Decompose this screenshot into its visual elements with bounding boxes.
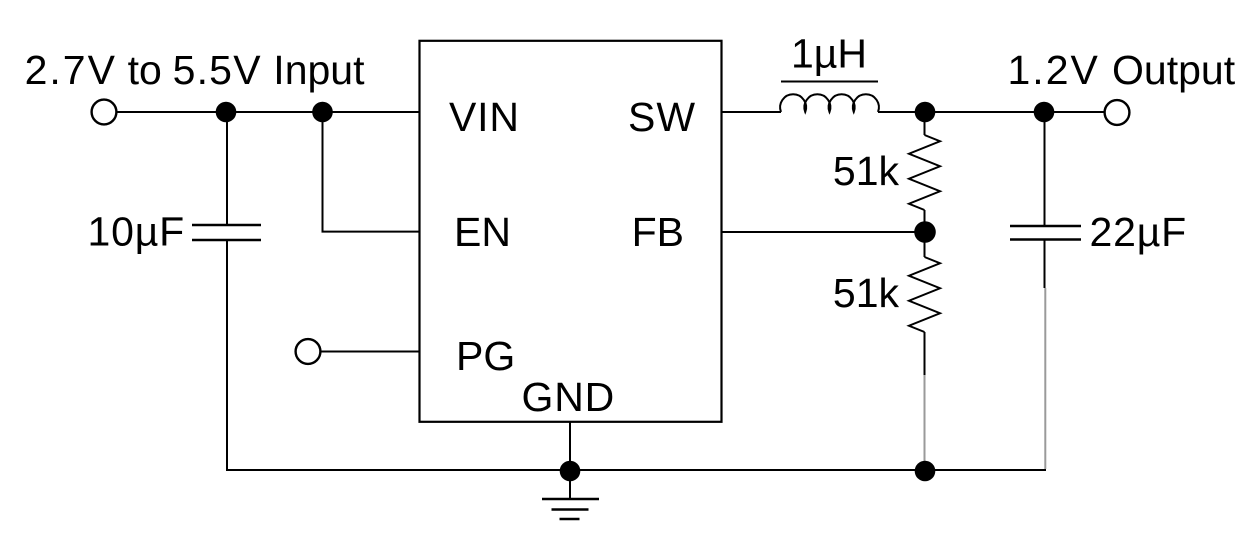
svg-text:FB: FB [632, 209, 684, 255]
svg-text:5.5V: 5.5V [173, 47, 262, 93]
wire PG [321, 351, 420, 353]
wire input to VIN [117, 111, 420, 113]
svg-text:2.7V: 2.7V [25, 47, 117, 93]
resistor R1 [909, 135, 940, 210]
inductor L1 [780, 94, 879, 112]
PG terminal [296, 339, 321, 364]
wire ground rail [227, 469, 1046, 471]
node output junction [1034, 102, 1055, 123]
label underline [781, 81, 878, 83]
node SW-R1 junction [915, 102, 936, 123]
op-amp U1 box [420, 41, 722, 422]
wire C1 top [226, 112, 228, 225]
wire C1 bottom to rail [227, 240, 420, 470]
capacitor C2 [1010, 226, 1081, 240]
node input junction 1 [216, 102, 237, 123]
svg-text:10µF: 10µF [88, 209, 185, 255]
ground [542, 499, 599, 519]
wire R2 bottom grey [924, 375, 926, 470]
wire C2 top [1044, 112, 1046, 226]
wire C2 bottom grey [1044, 288, 1046, 469]
svg-text:PG: PG [456, 333, 515, 379]
output terminal [1105, 100, 1130, 125]
wire FB [722, 231, 926, 233]
wire R1 bottom [924, 210, 926, 232]
svg-text:51k: 51k [833, 148, 900, 194]
svg-text:GND: GND [522, 374, 616, 420]
wire ground stem [569, 471, 571, 499]
svg-text:to: to [128, 47, 162, 93]
capacitor C1 [192, 225, 261, 240]
node rail-R2 junction [915, 461, 936, 482]
svg-text:22µF: 22µF [1090, 209, 1187, 255]
svg-text:51k: 51k [833, 270, 900, 316]
node GND junction [560, 461, 581, 482]
wire EN [323, 112, 421, 232]
node FB junction [914, 221, 936, 243]
wire SW to inductor [722, 111, 782, 113]
svg-text:Input: Input [273, 47, 365, 93]
svg-text:SW: SW [628, 94, 696, 140]
svg-text:1µH: 1µH [791, 31, 867, 77]
svg-text:1.2V: 1.2V [1008, 47, 1100, 93]
svg-text:EN: EN [454, 209, 511, 255]
svg-text:VIN: VIN [449, 94, 520, 140]
wire R2 top [924, 232, 926, 257]
input terminal [92, 100, 117, 125]
wire R2 bottom black [924, 332, 926, 375]
wire C2 bottom black [1044, 240, 1046, 289]
resistor R2 [909, 257, 940, 332]
wire inductor to output [878, 111, 1105, 113]
svg-text:Output: Output [1112, 47, 1236, 93]
wire R1 top [924, 112, 926, 135]
wire GND pin [569, 422, 571, 470]
node input junction 2 [312, 102, 333, 123]
